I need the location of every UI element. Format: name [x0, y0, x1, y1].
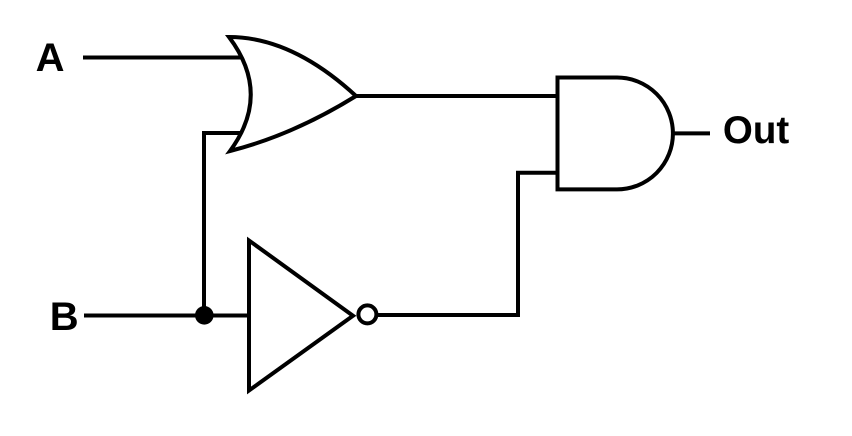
- svg-text:Out: Out: [723, 109, 789, 152]
- svg-text:B: B: [50, 295, 79, 339]
- svg-text:A: A: [36, 36, 65, 80]
